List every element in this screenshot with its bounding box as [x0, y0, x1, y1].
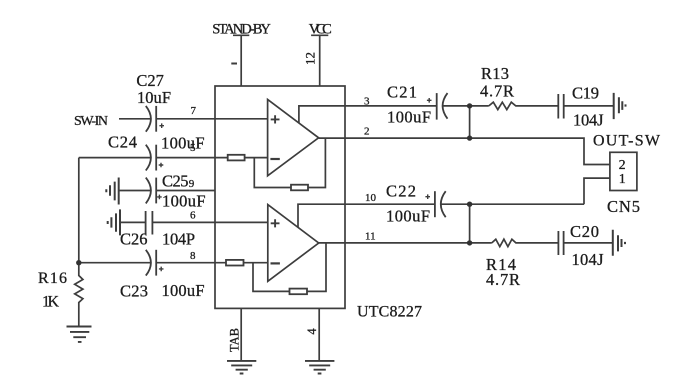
svg-text:2: 2 [619, 158, 626, 173]
svg-text:100uF: 100uF [162, 192, 206, 211]
svg-text:VCC: VCC [309, 22, 332, 38]
svg-text:1: 1 [619, 172, 626, 187]
svg-text:6: 6 [190, 210, 196, 222]
svg-text:4: 4 [305, 328, 319, 335]
svg-text:8: 8 [190, 250, 196, 262]
svg-text:5: 5 [190, 142, 196, 154]
svg-text:C26: C26 [120, 230, 148, 249]
svg-text:10uF: 10uF [137, 88, 171, 107]
svg-text:11: 11 [365, 231, 376, 243]
svg-text:4.7R: 4.7R [486, 270, 520, 289]
svg-text:3: 3 [364, 96, 370, 108]
svg-text:12: 12 [302, 52, 317, 65]
svg-text:CN5: CN5 [607, 197, 640, 216]
svg-text:OUT-SW: OUT-SW [593, 133, 661, 150]
svg-text:C25: C25 [162, 171, 189, 190]
svg-text:R16: R16 [38, 270, 67, 287]
svg-text:C21: C21 [387, 83, 417, 102]
svg-text:10: 10 [365, 192, 377, 204]
svg-text:104J: 104J [573, 111, 604, 130]
svg-text:UTC8227: UTC8227 [357, 304, 422, 321]
svg-text:2: 2 [364, 126, 370, 138]
svg-text:9: 9 [189, 178, 195, 190]
svg-text:C20: C20 [570, 222, 599, 241]
svg-text:100uF: 100uF [386, 207, 430, 226]
svg-text:C22: C22 [386, 182, 416, 201]
svg-text:C19: C19 [572, 84, 599, 103]
svg-text:STAND-BY: STAND-BY [212, 22, 271, 38]
svg-text:100uF: 100uF [387, 108, 431, 127]
svg-text:4.7R: 4.7R [480, 82, 514, 101]
svg-text:104P: 104P [162, 230, 195, 249]
svg-text:TAB: TAB [228, 328, 242, 352]
svg-text:104J: 104J [572, 250, 605, 269]
svg-text:100uF: 100uF [162, 281, 205, 300]
svg-text:R13: R13 [481, 64, 509, 83]
svg-text:100uF: 100uF [161, 134, 205, 153]
svg-text:SW-IN: SW-IN [74, 114, 108, 129]
svg-text:C23: C23 [120, 282, 148, 301]
svg-text:7: 7 [191, 105, 197, 117]
svg-text:C24: C24 [108, 133, 137, 152]
svg-text:1K: 1K [42, 294, 59, 311]
